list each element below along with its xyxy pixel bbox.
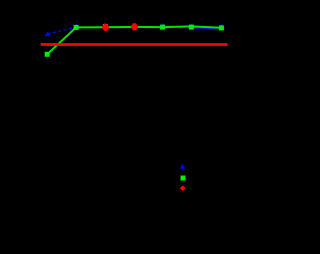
blue triangle marker T6 — [188, 23, 194, 29]
green square marker S5 — [160, 25, 165, 30]
red diamond marker D2 — [131, 23, 138, 30]
green square marker S4 — [132, 25, 136, 29]
legend blue triangle — [180, 164, 186, 169]
blue triangle marker T4 — [132, 24, 136, 29]
blue triangle marker T2 — [72, 23, 79, 29]
blue triangle marker T7 — [219, 23, 225, 28]
legend green square — [181, 176, 186, 181]
red horizontal line — [41, 43, 228, 46]
blue triangle marker T5 — [160, 23, 167, 29]
red diamond marker D1 — [102, 24, 109, 31]
legend red diamond — [180, 185, 186, 191]
blue triangle marker T1 — [44, 31, 51, 36]
green square marker S7 — [219, 25, 224, 30]
blue triangle marker T3 — [103, 24, 107, 29]
green square marker S1 — [45, 52, 50, 57]
blue line last segment (visible below green) — [193, 27, 221, 30]
green square marker S6 — [189, 25, 194, 30]
green square marker S3 — [103, 24, 108, 29]
green square marker S2 — [74, 25, 79, 30]
blue dashed line (series B) — [48, 27, 222, 34]
green solid line (series G) — [47, 26, 221, 54]
